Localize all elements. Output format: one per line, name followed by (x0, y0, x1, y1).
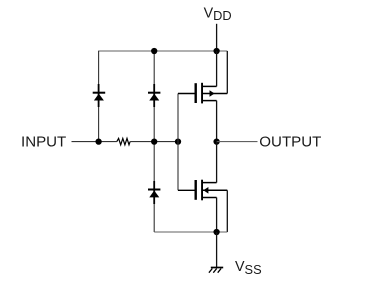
diode D1 (input to VDD clamp) (93, 84, 106, 107)
wire middle column vertical (153, 51, 155, 232)
wire NMOS source down to rail (216, 198, 218, 233)
transistor Q2 NMOS (195, 180, 228, 201)
node junction top rail / middle column (151, 48, 157, 54)
wire PMOS source up to rail (216, 51, 218, 86)
wire ground lead (216, 232, 218, 268)
diode D3 (VSS to input clamp) (148, 181, 160, 204)
wire VDD vertical (216, 24, 218, 51)
wire INPUT lead (72, 141, 117, 143)
wire PMOS drain down to output (216, 101, 218, 142)
svg-text:OUTPUT: OUTPUT (259, 133, 321, 150)
transistor Q1 PMOS (195, 83, 228, 104)
node junction bottom rail / ground (213, 229, 219, 235)
node junction input line / gate column (175, 138, 181, 144)
svg-text:VSS: VSS (235, 259, 262, 277)
wire NMOS bulk down to rail (226, 190, 228, 232)
node junction top rail / VDD (213, 48, 219, 54)
wire NMOS gate lead (178, 189, 195, 191)
svg-text:INPUT: INPUT (21, 133, 66, 150)
wire left column vertical (98, 51, 100, 142)
wire PMOS gate lead (178, 93, 195, 95)
node junction input / diode D1 (95, 138, 101, 144)
node junction input line / middle column (151, 138, 157, 144)
ground symbol (209, 268, 223, 273)
node output junction (213, 138, 219, 144)
wire resistor to gate node (130, 141, 178, 143)
wire top rail (98, 50, 227, 52)
diode D2 (input to VDD clamp) (148, 84, 160, 107)
wire gate column vertical (177, 94, 179, 191)
wire OUTPUT lead (217, 141, 258, 143)
resistor R1 (117, 138, 130, 144)
wire PMOS bulk up to rail (226, 51, 228, 94)
svg-text:VDD: VDD (204, 5, 232, 23)
wire bottom rail (154, 231, 227, 233)
wire NMOS drain up to output (216, 142, 218, 183)
